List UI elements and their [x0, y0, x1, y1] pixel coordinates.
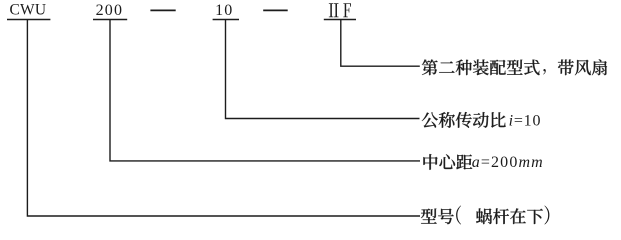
label 1 comma — [543, 69, 546, 74]
svg-text:i=10: i=10 — [509, 112, 542, 129]
underline under CWU — [7, 19, 50, 21]
label 4 close paren — [544, 206, 549, 225]
svg-text:a=200mm: a=200mm — [472, 154, 544, 171]
svg-text:10: 10 — [215, 2, 233, 19]
separator dash 2 — [263, 9, 288, 11]
leader line from CWU to label 4 — [27, 20, 420, 217]
underline under 200 — [93, 19, 127, 21]
svg-text:CWU: CWU — [10, 2, 47, 19]
svg-text:200: 200 — [96, 2, 124, 19]
underline under 10 — [213, 19, 239, 21]
underline under IIF — [324, 19, 356, 21]
label 2: nominal ratio — [422, 112, 438, 127]
separator dash 1 — [150, 9, 175, 11]
label 1: assembly type, with fan — [422, 59, 438, 75]
label 4 open paren — [456, 206, 461, 225]
leader line from 200 to label 3 — [110, 20, 420, 161]
label 3: center distance — [423, 154, 437, 170]
leader line from 10 to label 2 — [226, 20, 420, 119]
label 4: model, worm underneath — [421, 209, 437, 224]
leader line from IIF to label 1 — [341, 20, 420, 67]
code: roman numeral II — [329, 3, 339, 17]
code: letter F — [343, 3, 351, 17]
